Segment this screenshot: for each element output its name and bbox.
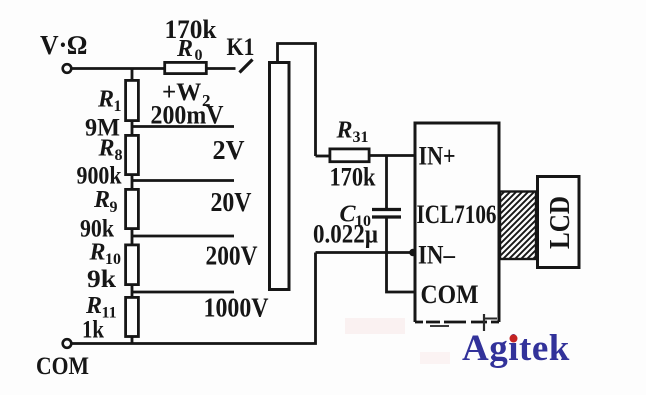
svg-text:V·Ω: V·Ω — [40, 30, 87, 60]
svg-text:0.022µ: 0.022µ — [313, 220, 378, 249]
svg-text:900k: 900k — [77, 163, 122, 190]
svg-text:90k: 90k — [80, 216, 114, 243]
svg-text:1k: 1k — [82, 317, 104, 344]
logo i dot red — [510, 335, 518, 343]
artifact under-dash below IC bottom — [430, 325, 449, 327]
svg-text:170k: 170k — [330, 163, 376, 192]
svg-text:ICL7106: ICL7106 — [417, 200, 497, 229]
svg-text:20V: 20V — [211, 187, 252, 217]
svg-text:R: R — [89, 240, 106, 266]
svg-text:R: R — [98, 136, 115, 162]
wire C10 to IN- net — [385, 219, 388, 253]
artifact tick bottom right of IC — [483, 314, 485, 331]
svg-text:COM: COM — [36, 351, 89, 380]
LCD display box — [538, 177, 580, 268]
svg-text:IN+: IN+ — [419, 141, 456, 171]
svg-text:200V: 200V — [206, 241, 258, 271]
svg-text:COM: COM — [421, 279, 479, 309]
artifact faint smudges — [345, 318, 405, 334]
svg-text:1000V: 1000V — [204, 293, 269, 323]
wire wafer top to R31 input — [278, 44, 316, 157]
svg-text:9: 9 — [110, 199, 118, 216]
svg-text:31: 31 — [353, 129, 369, 146]
wire junction to COM pin — [387, 253, 417, 293]
node junction dot at IN- pin — [409, 249, 417, 257]
svg-text:IN–: IN– — [418, 240, 456, 270]
wire junction to C10 — [385, 156, 388, 209]
svg-text:K1: K1 — [227, 34, 255, 61]
switch wafer bar — [270, 63, 290, 290]
svg-text:1: 1 — [114, 98, 122, 115]
wire IN- net horizontal — [316, 251, 417, 254]
svg-text:9k: 9k — [87, 266, 116, 293]
svg-text:R: R — [85, 293, 102, 319]
wire input terminal to R0 — [72, 67, 164, 70]
node COM terminal — [63, 339, 72, 348]
svg-text:R: R — [97, 87, 114, 113]
wire R31 to IN+ pin — [316, 155, 330, 158]
svg-text:2V: 2V — [213, 135, 245, 165]
IC U1 ICL7106 box — [415, 123, 499, 322]
svg-text:R: R — [336, 118, 353, 144]
node V·Ω input terminal — [63, 64, 72, 73]
wire divider chain vertical bus — [131, 69, 134, 344]
wire COM bottom bus — [72, 253, 316, 344]
wire R0 to switch K1 — [208, 67, 236, 70]
svg-text:R: R — [176, 36, 193, 62]
svg-text:8: 8 — [115, 147, 123, 164]
svg-text:Agitek: Agitek — [462, 328, 570, 369]
svg-text:LCD: LCD — [545, 196, 576, 249]
svg-text:R: R — [93, 187, 110, 213]
hatched connector block between IC and LCD — [500, 192, 536, 260]
